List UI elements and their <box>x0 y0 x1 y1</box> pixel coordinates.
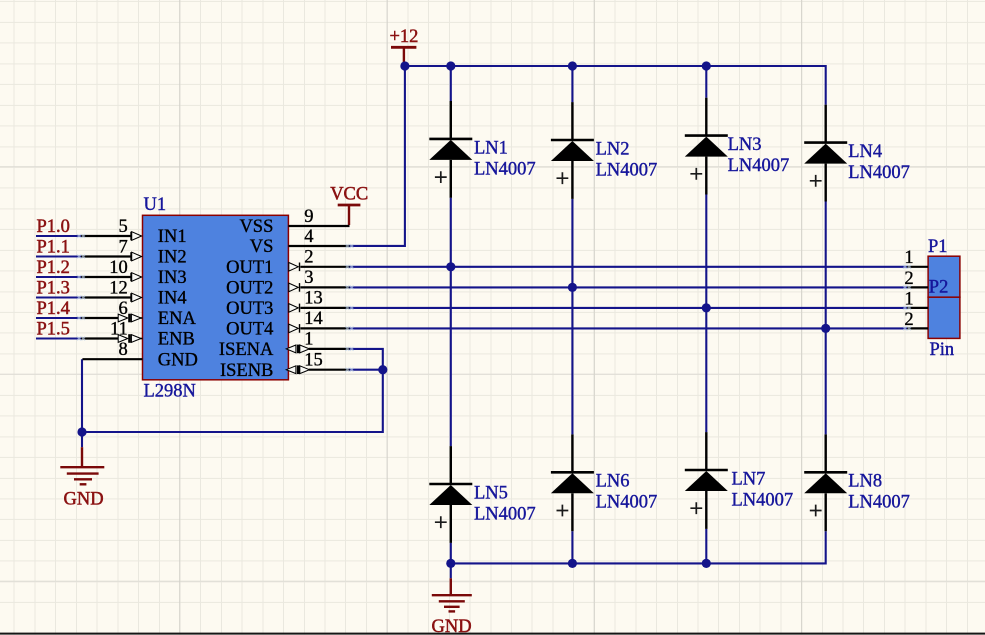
svg-text:LN5: LN5 <box>474 483 508 503</box>
svg-text:LN4: LN4 <box>848 142 882 162</box>
svg-text:12: 12 <box>109 278 128 298</box>
svg-text:OUT2: OUT2 <box>226 279 273 299</box>
svg-text:2: 2 <box>304 248 313 268</box>
U1 pin 1 ISENA <box>219 330 350 360</box>
junction at +12 node <box>400 61 409 70</box>
svg-text:ISENB: ISENB <box>220 361 273 381</box>
U1 pin 2 OUT1 <box>226 248 349 278</box>
junction top bus col1 <box>446 61 455 70</box>
svg-text:+12: +12 <box>390 27 419 47</box>
U1 pin 11 ENB <box>81 319 195 349</box>
svg-text:P1: P1 <box>928 237 948 257</box>
svg-text:LN4007: LN4007 <box>848 163 910 183</box>
svg-text:LN4007: LN4007 <box>732 490 794 510</box>
svg-text:P1.0: P1.0 <box>37 217 70 237</box>
power port VCC <box>330 185 368 225</box>
diode LN2 <box>551 102 657 199</box>
svg-text:LN4007: LN4007 <box>728 156 790 176</box>
junction GND node left <box>77 427 86 436</box>
wire: OUT1 net to connector P1 pin 1 <box>349 266 907 268</box>
connector P2 pin 1 <box>904 289 928 309</box>
wire: diode column 2 lower <box>571 531 573 563</box>
junction OUT2 col2 <box>568 283 577 292</box>
wire: net stub P1.1 <box>36 255 82 257</box>
op-amp U1 body (L298N) <box>143 195 289 401</box>
svg-text:P1.4: P1.4 <box>37 299 70 319</box>
svg-text:Pin: Pin <box>930 340 955 360</box>
U1 pin 14 OUT4 <box>226 309 349 339</box>
connector P2 <box>928 278 960 360</box>
svg-text:L298N: L298N <box>144 382 196 402</box>
wire: +12 top bus <box>405 65 826 67</box>
svg-text:GND: GND <box>432 617 472 635</box>
wire: net stub P1.5 <box>36 337 82 339</box>
svg-text:ISENA: ISENA <box>219 340 274 360</box>
wire: diode column 1 middle <box>450 198 452 446</box>
wire: diode column 1 upper <box>450 66 452 101</box>
junction OUT3 col3 <box>702 303 711 312</box>
U1 pin 15 ISENB <box>220 351 350 381</box>
wire: net stub P1.2 <box>36 276 82 278</box>
connector P2 pin 2 <box>904 310 928 330</box>
wire: diode column 2 middle <box>571 199 573 435</box>
svg-text:LN4007: LN4007 <box>474 159 536 179</box>
diode LN3 <box>685 98 789 195</box>
diode LN8 <box>804 434 910 531</box>
wire: diode column 1 lower <box>450 543 452 564</box>
junction bottom bus col2 <box>568 559 577 568</box>
svg-text:7: 7 <box>119 237 128 257</box>
svg-text:P1.5: P1.5 <box>37 320 70 340</box>
svg-text:1: 1 <box>304 330 313 350</box>
svg-text:6: 6 <box>119 299 128 319</box>
junction bottom bus col1 <box>446 559 455 568</box>
svg-text:LN4007: LN4007 <box>848 493 910 513</box>
wire: diode column 3 upper <box>705 66 707 98</box>
wire: diode column 4 middle <box>825 202 827 435</box>
U1 pin 4 VS <box>250 227 350 257</box>
svg-text:LN4007: LN4007 <box>474 504 536 524</box>
U1 pin 7 IN2 <box>81 237 187 267</box>
svg-text:LN6: LN6 <box>596 472 630 492</box>
wire: ISENB stub <box>349 369 383 371</box>
U1 pin 8 GND <box>82 340 197 370</box>
svg-text:VS: VS <box>250 237 274 257</box>
U1 pin 9 VSS <box>239 207 349 237</box>
svg-text:5: 5 <box>119 217 128 237</box>
ground symbol left <box>60 432 104 510</box>
svg-text:9: 9 <box>304 207 313 227</box>
svg-text:11: 11 <box>110 319 128 339</box>
connector P1 pin 2 <box>904 269 928 289</box>
wire: net stub P1.4 <box>36 317 82 319</box>
svg-text:LN8: LN8 <box>848 472 882 492</box>
wire: diode column 4 lower <box>825 531 827 564</box>
svg-text:LN3: LN3 <box>728 135 762 155</box>
svg-text:GND: GND <box>64 490 104 510</box>
junction OUT1 col1 <box>446 262 455 271</box>
svg-text:GND: GND <box>158 350 198 370</box>
U1 pin 3 OUT2 <box>226 268 349 298</box>
svg-text:IN1: IN1 <box>158 227 187 247</box>
svg-text:VCC: VCC <box>330 185 368 205</box>
U1 pin 12 IN4 <box>81 278 187 308</box>
svg-text:P1.3: P1.3 <box>37 279 70 299</box>
wire: diode column 3 lower <box>705 529 707 564</box>
power port +12 <box>390 27 419 65</box>
wire: OUT3 net to connector P2 pin 1 <box>349 307 907 309</box>
svg-text:LN4007: LN4007 <box>596 493 658 513</box>
diode LN6 <box>551 434 657 531</box>
wire: net stub P1.0 <box>36 235 82 237</box>
svg-text:OUT4: OUT4 <box>226 320 273 340</box>
svg-text:10: 10 <box>109 258 128 278</box>
diode LN5 <box>429 446 535 543</box>
connector P1 pin 1 <box>904 248 928 268</box>
wire: diode column 4 upper <box>825 65 827 105</box>
sheet bottom border <box>0 633 985 635</box>
svg-text:P2: P2 <box>929 278 949 298</box>
wire: diode column 3 middle <box>705 195 707 433</box>
svg-text:LN4007: LN4007 <box>596 160 658 180</box>
junction bottom bus col3 <box>702 559 711 568</box>
svg-text:IN2: IN2 <box>158 248 187 268</box>
svg-text:8: 8 <box>119 340 128 360</box>
svg-text:VSS: VSS <box>239 217 273 237</box>
junction top bus col2 <box>568 61 577 70</box>
wire: diode column 2 upper <box>571 66 573 102</box>
wire: net stub P1.3 <box>36 296 82 298</box>
diode LN1 <box>429 101 535 198</box>
svg-text:4: 4 <box>304 227 313 247</box>
svg-text:3: 3 <box>304 268 313 288</box>
svg-text:13: 13 <box>304 289 323 309</box>
connector P1 <box>928 237 960 297</box>
svg-text:OUT1: OUT1 <box>226 258 273 278</box>
diode LN4 <box>804 105 910 202</box>
svg-text:IN4: IN4 <box>158 289 187 309</box>
wire: riser from +12 bus down to VS pin <box>349 65 405 246</box>
svg-text:ENA: ENA <box>158 309 197 329</box>
svg-text:P1.1: P1.1 <box>37 238 70 258</box>
diode LN7 <box>685 432 793 529</box>
U1 pin 13 OUT3 <box>226 289 349 319</box>
U1 pin 10 IN3 <box>81 258 187 288</box>
svg-text:LN1: LN1 <box>474 138 508 158</box>
wire: OUT2 net to connector P1 pin 2 <box>349 286 907 288</box>
svg-text:15: 15 <box>304 351 323 371</box>
wire: ISENA to ground run <box>82 349 383 432</box>
svg-text:LN2: LN2 <box>596 139 630 159</box>
wire: OUT4 net to connector P2 pin 2 <box>349 327 907 329</box>
wire-pin connection markers <box>77 234 911 372</box>
wire: GND pin drop <box>81 359 83 432</box>
U1 pin 5 IN1 <box>81 217 187 247</box>
junction top bus col3 <box>702 61 711 70</box>
wire: bottom ground bus <box>451 562 826 564</box>
svg-text:LN7: LN7 <box>732 469 766 489</box>
svg-text:ENB: ENB <box>158 330 195 350</box>
svg-text:IN3: IN3 <box>158 268 187 288</box>
junction ISENB node <box>378 365 387 374</box>
U1 pin 6 ENA <box>81 299 196 329</box>
ground symbol bottom <box>432 563 472 635</box>
svg-text:U1: U1 <box>144 195 167 215</box>
junction OUT4 col4 <box>821 324 830 333</box>
svg-text:OUT3: OUT3 <box>226 299 273 319</box>
svg-text:P1.2: P1.2 <box>37 258 70 278</box>
svg-text:14: 14 <box>304 309 323 329</box>
